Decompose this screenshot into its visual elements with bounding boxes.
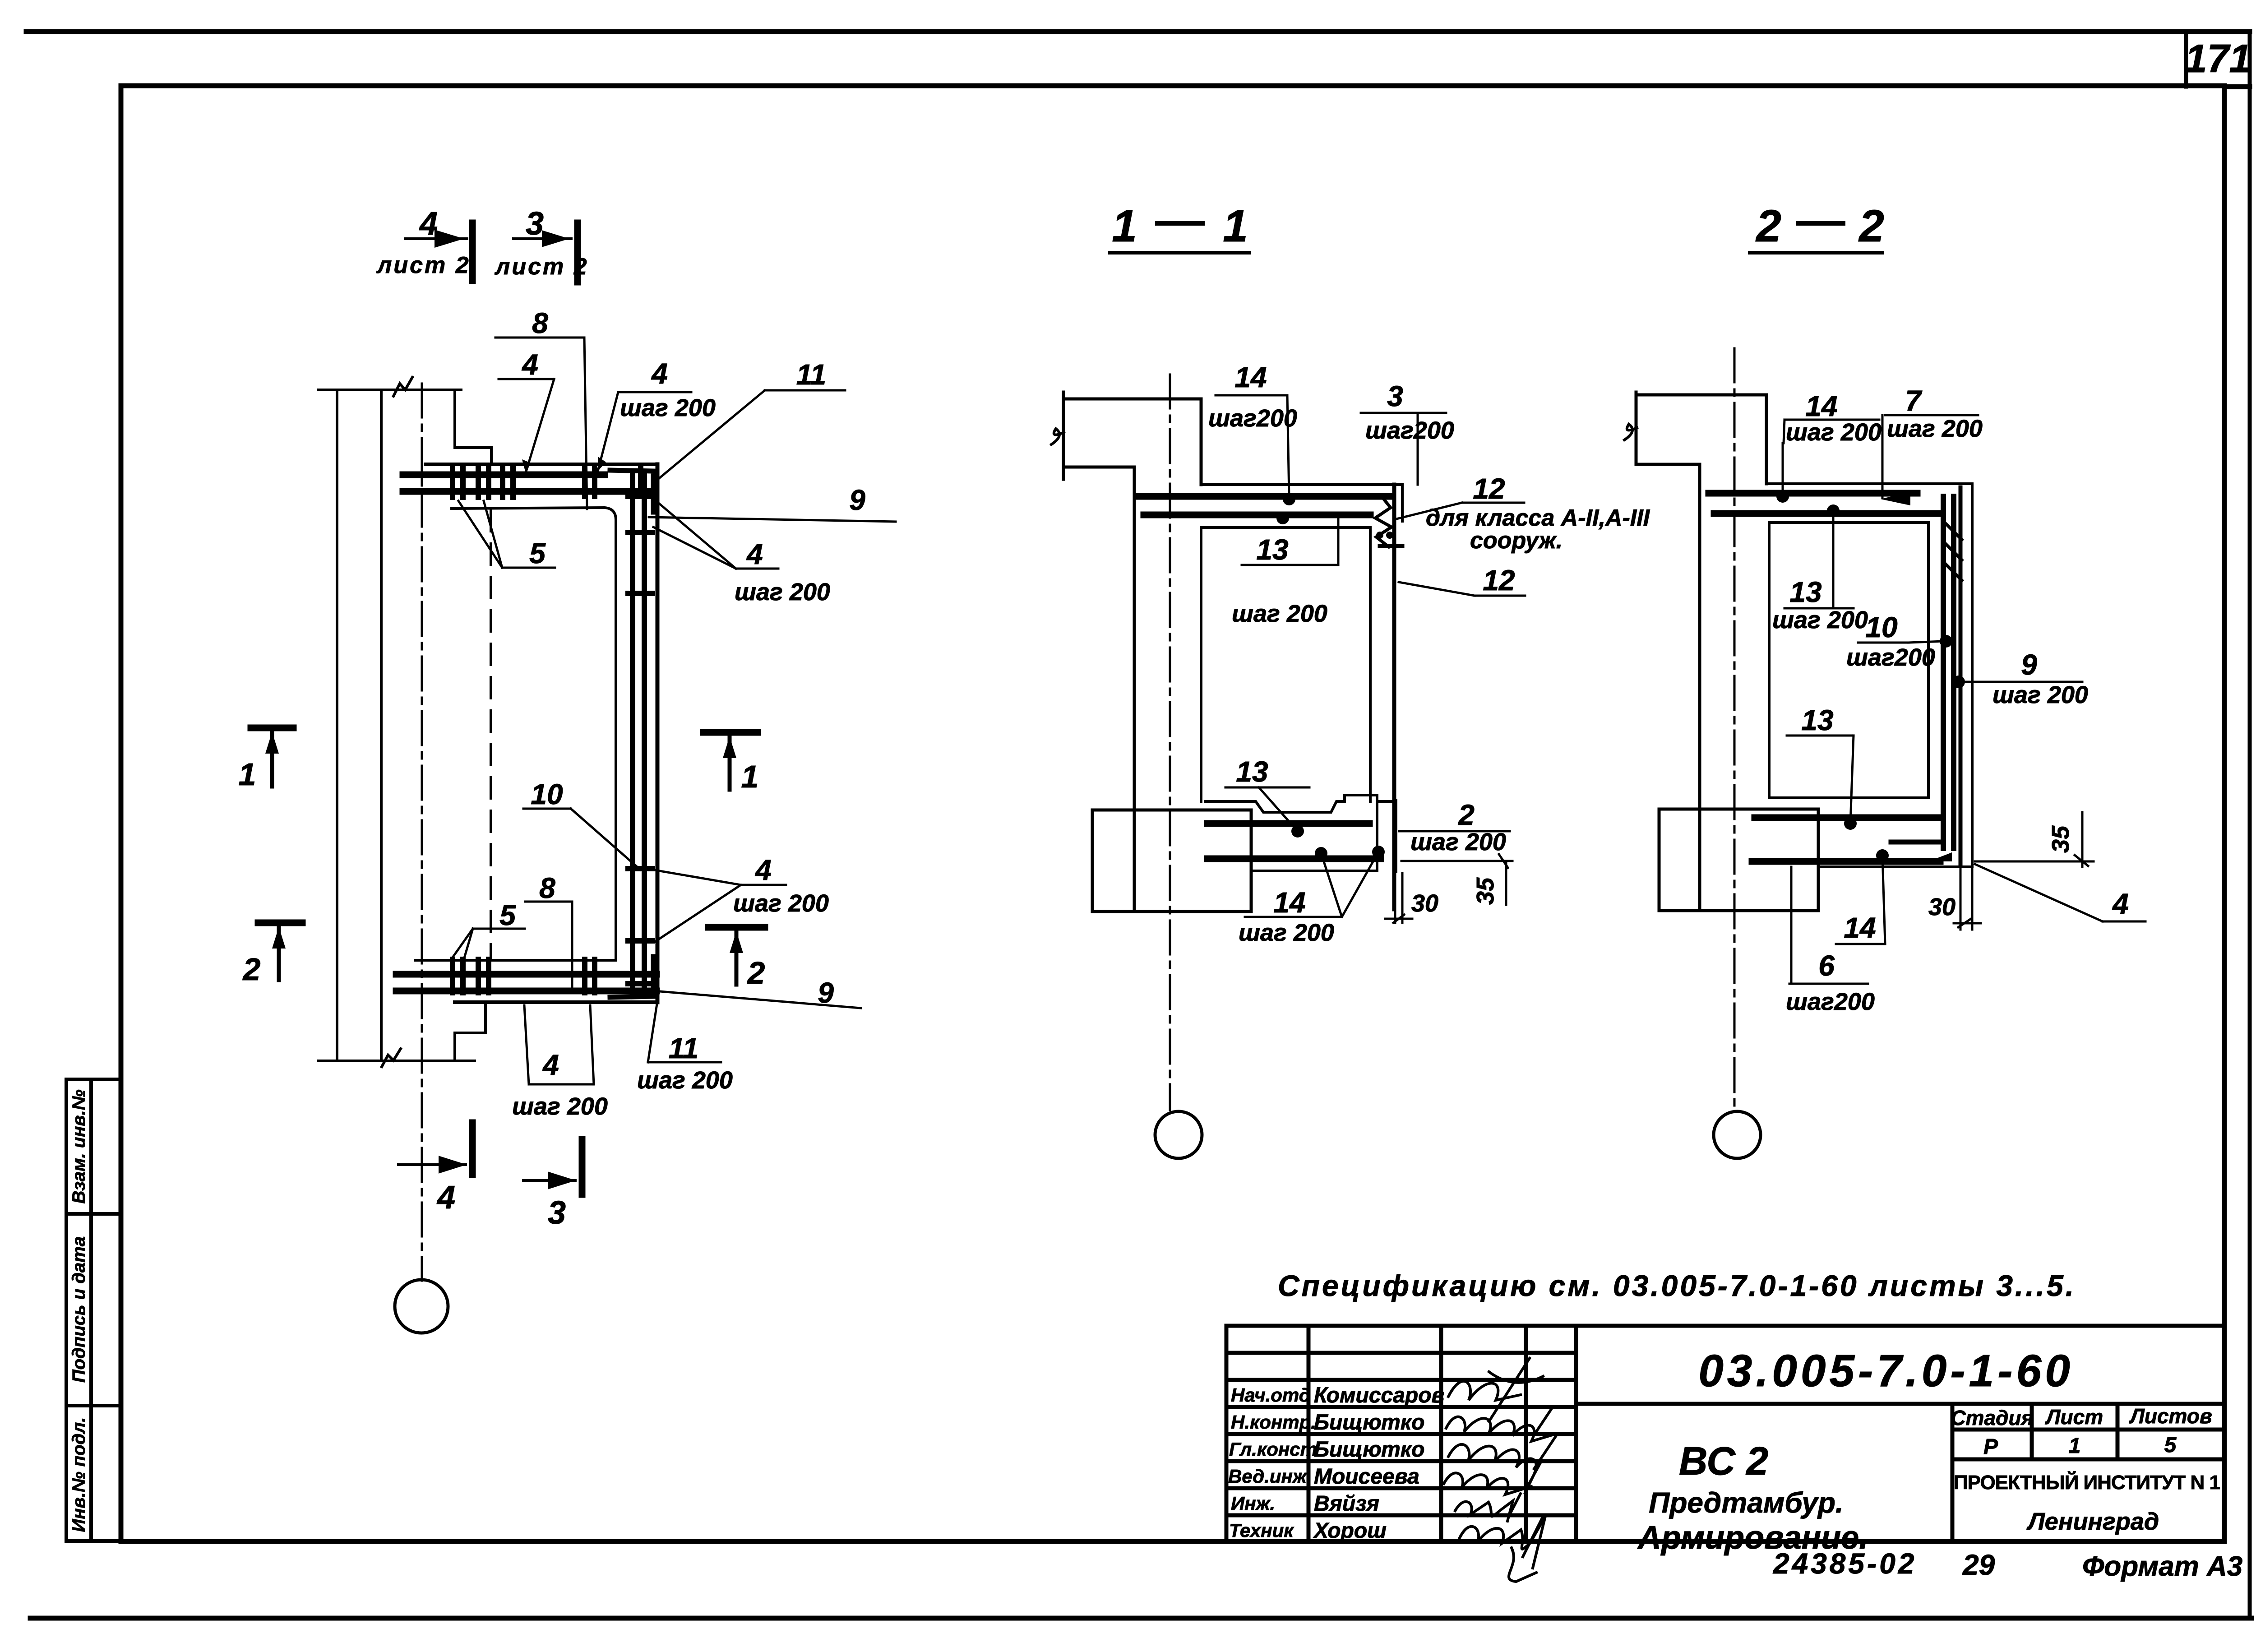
svg-text:Техник: Техник: [1229, 1520, 1294, 1541]
svg-text:Ленинград: Ленинград: [2026, 1508, 2159, 1535]
svg-text:1: 1: [239, 757, 256, 792]
svg-text:шаг200: шаг200: [1208, 405, 1297, 432]
svg-text:2: 2: [242, 952, 261, 987]
svg-text:Подпись и дата: Подпись и дата: [69, 1236, 89, 1383]
svg-text:4: 4: [746, 538, 763, 570]
svg-text:шаг200: шаг200: [1365, 417, 1454, 444]
svg-text:Формат А3: Формат А3: [2082, 1551, 2242, 1582]
svg-text:шаг 200: шаг 200: [1410, 828, 1506, 856]
svg-text:Хорош: Хорош: [1313, 1519, 1387, 1543]
svg-text:Р: Р: [1983, 1435, 1998, 1459]
svg-text:2: 2: [1858, 201, 1884, 251]
svg-text:13: 13: [1801, 704, 1833, 736]
svg-text:10: 10: [531, 778, 563, 810]
svg-text:2: 2: [1458, 799, 1475, 831]
svg-text:03.005-7.0-1-60: 03.005-7.0-1-60: [1698, 1346, 2074, 1396]
svg-text:2: 2: [747, 955, 765, 990]
svg-text:шаг 200: шаг 200: [1992, 681, 2088, 708]
svg-text:ВС 2: ВС 2: [1679, 1439, 1768, 1483]
svg-text:лист 2: лист 2: [376, 252, 471, 278]
svg-text:сооруж.: сооруж.: [1470, 528, 1563, 554]
svg-text:35: 35: [1472, 877, 1499, 905]
svg-text:4: 4: [651, 357, 668, 390]
svg-text:3: 3: [548, 1195, 566, 1231]
svg-text:4: 4: [542, 1049, 559, 1081]
svg-text:шаг200: шаг200: [1846, 644, 1935, 671]
svg-text:13: 13: [1256, 533, 1288, 566]
svg-text:Вяйзя: Вяйзя: [1314, 1492, 1379, 1516]
svg-text:Бищютко: Бищютко: [1314, 1411, 1424, 1435]
svg-text:Взам. инв.№: Взам. инв.№: [69, 1089, 89, 1203]
svg-text:3: 3: [526, 206, 544, 242]
svg-text:Спецификацию см. 03.005-7.0-: Спецификацию см. 03.005-7.0-1-60 листы 3…: [1278, 1269, 2076, 1302]
svg-text:Предтамбур.: Предтамбур.: [1649, 1486, 1843, 1519]
svg-text:шаг 200: шаг 200: [1786, 419, 1882, 446]
svg-text:9: 9: [2021, 648, 2037, 681]
svg-text:Бищютко: Бищютко: [1314, 1438, 1424, 1462]
svg-text:35: 35: [2047, 825, 2074, 853]
svg-text:14: 14: [1234, 361, 1267, 393]
svg-text:1: 1: [741, 759, 759, 794]
svg-text:13: 13: [1789, 576, 1821, 608]
svg-text:8: 8: [532, 307, 548, 339]
svg-text:6: 6: [1818, 949, 1835, 982]
svg-text:11: 11: [796, 358, 826, 391]
svg-text:лист 2: лист 2: [494, 254, 589, 280]
svg-text:Инв.№ подл.: Инв.№ подл.: [69, 1417, 89, 1532]
svg-text:шаг 200: шаг 200: [620, 394, 716, 421]
svg-text:ПРОЕКТНЫЙ ИНСТИТУТ N 1: ПРОЕКТНЫЙ ИНСТИТУТ N 1: [1954, 1471, 2220, 1494]
svg-text:Нач.отд: Нач.отд: [1231, 1384, 1311, 1406]
svg-text:4: 4: [521, 348, 538, 381]
svg-text:1: 1: [2069, 1434, 2081, 1458]
svg-text:14: 14: [1273, 886, 1305, 919]
svg-text:шаг 200: шаг 200: [1232, 600, 1327, 627]
svg-text:13: 13: [1236, 755, 1268, 788]
svg-text:шаг 200: шаг 200: [1772, 606, 1868, 634]
svg-text:4: 4: [436, 1180, 455, 1216]
svg-text:3: 3: [1387, 380, 1403, 412]
svg-text:шаг200: шаг200: [1786, 988, 1875, 1015]
svg-text:шаг 200: шаг 200: [733, 890, 829, 917]
svg-text:шаг 200: шаг 200: [512, 1093, 608, 1120]
svg-text:шаг 200: шаг 200: [1239, 919, 1334, 946]
svg-text:шаг 200: шаг 200: [637, 1067, 733, 1094]
svg-text:Вед.инж: Вед.инж: [1228, 1466, 1308, 1487]
svg-text:1: 1: [1112, 201, 1137, 251]
svg-text:14: 14: [1844, 912, 1876, 944]
svg-text:7: 7: [1905, 384, 1923, 417]
svg-text:171: 171: [2185, 36, 2251, 81]
svg-text:8: 8: [539, 872, 555, 904]
svg-text:4: 4: [2112, 888, 2129, 920]
svg-text:5: 5: [499, 899, 516, 931]
svg-text:5: 5: [2164, 1433, 2177, 1457]
svg-text:Листов: Листов: [2129, 1404, 2212, 1428]
svg-text:11: 11: [669, 1032, 698, 1064]
svg-text:12: 12: [1483, 564, 1515, 597]
svg-text:29: 29: [1962, 1549, 1995, 1581]
svg-text:Стадия: Стадия: [1951, 1406, 2033, 1430]
svg-text:Н.контр.: Н.контр.: [1231, 1411, 1316, 1433]
svg-text:Гл.конст: Гл.конст: [1229, 1439, 1317, 1460]
svg-text:Армирование.: Армирование.: [1637, 1520, 1868, 1556]
svg-text:Моисеева: Моисеева: [1314, 1465, 1419, 1489]
svg-text:Лист: Лист: [2045, 1405, 2103, 1429]
svg-text:Инж.: Инж.: [1231, 1493, 1275, 1514]
svg-text:9: 9: [849, 484, 865, 516]
svg-text:14: 14: [1805, 390, 1837, 422]
svg-text:10: 10: [1865, 611, 1897, 643]
svg-text:Комиссаров: Комиссаров: [1314, 1384, 1445, 1407]
svg-text:30: 30: [1928, 893, 1956, 921]
svg-text:30: 30: [1411, 890, 1438, 917]
svg-text:шаг 200: шаг 200: [1887, 415, 1983, 442]
svg-text:5: 5: [529, 537, 546, 569]
svg-text:12: 12: [1473, 472, 1505, 505]
svg-text:1: 1: [1223, 201, 1248, 251]
svg-text:4: 4: [754, 854, 772, 886]
svg-text:шаг 200: шаг 200: [735, 578, 830, 606]
svg-text:2: 2: [1755, 201, 1781, 251]
